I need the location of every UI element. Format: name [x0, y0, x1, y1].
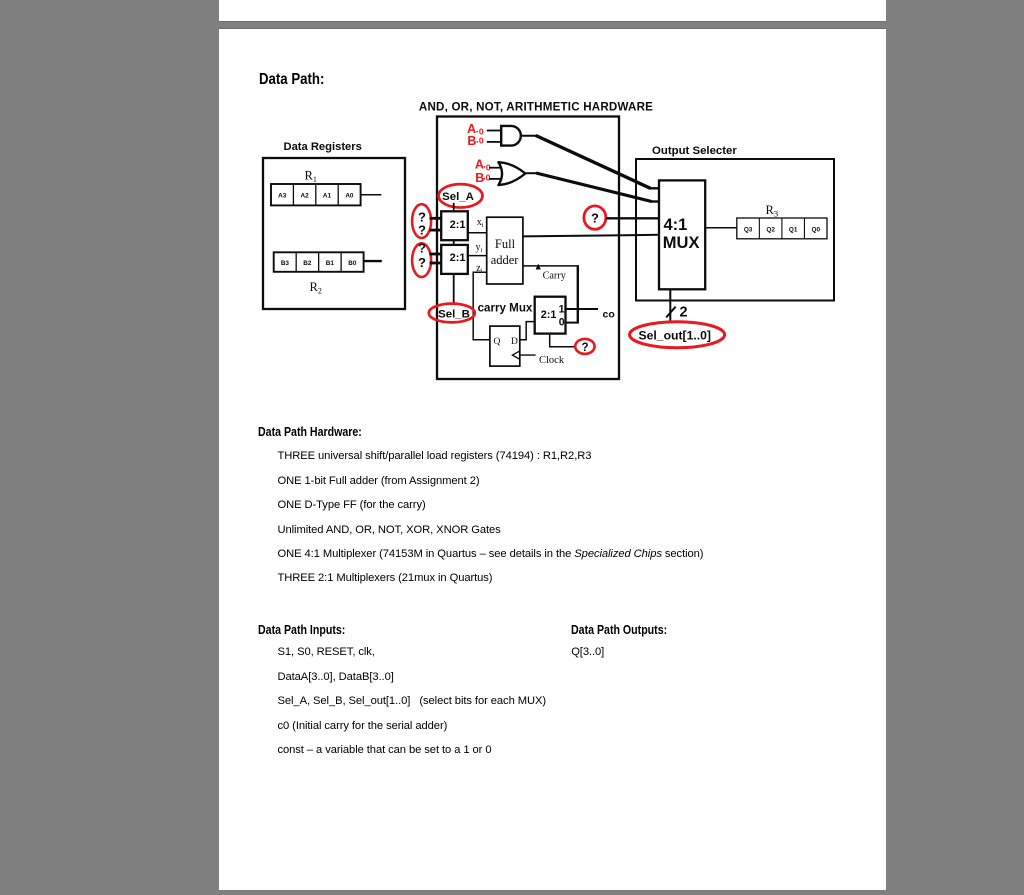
- wire: ? to U2 input 1: [430, 253, 442, 256]
- wire: MUX output to R3: [705, 227, 737, 229]
- svg-text:?: ?: [418, 222, 426, 237]
- wire: OR output diagonal to 4:1 MUX: [536, 173, 652, 202]
- svg-text:Q: Q: [494, 337, 501, 347]
- svg-text:0: 0: [486, 173, 491, 183]
- box: arithmetic hardware enclosure: [437, 117, 619, 380]
- svg-text:1: 1: [559, 303, 565, 315]
- wire: A0 to AND gate: [487, 130, 502, 132]
- svg-text:carry Mux: carry Mux: [478, 301, 533, 314]
- label: bus width 2: [680, 305, 688, 321]
- register R2 (B3..B0 cells): [274, 252, 364, 271]
- wire: carry-mux out to FF D: [520, 322, 535, 340]
- pin label x_i: [477, 217, 484, 229]
- node Sel_B (red ellipse callout): [429, 304, 475, 323]
- svg-text:Output Selecter: Output Selecter: [652, 145, 737, 157]
- svg-text:Q1: Q1: [789, 227, 798, 234]
- svg-text:A1: A1: [323, 193, 332, 200]
- wire: carry FF Q loop to full adder z: [473, 272, 490, 340]
- svg-text:yi: yi: [476, 242, 483, 254]
- svg-text:2:1: 2:1: [450, 219, 466, 231]
- svg-text:0: 0: [559, 317, 565, 329]
- wire: ? to 4:1 MUX input: [606, 217, 660, 219]
- svg-text:Clock: Clock: [539, 355, 565, 366]
- wire: AND output diagonal to 4:1 MUX: [536, 136, 651, 189]
- svg-text:4:1: 4:1: [664, 216, 688, 234]
- svg-text:B: B: [467, 134, 476, 148]
- svg-text:Full: Full: [495, 237, 516, 251]
- or-gate G2: [498, 162, 525, 185]
- label: input B0 (OR): [475, 171, 490, 185]
- svg-text:R3: R3: [766, 203, 779, 219]
- svg-text:Data Registers: Data Registers: [284, 141, 362, 153]
- heading Data Path:: [259, 72, 324, 88]
- wire: R1 output stub: [361, 194, 382, 196]
- svg-text:Sel_B: Sel_B: [438, 309, 470, 321]
- label: Output Selecter title: [652, 145, 737, 157]
- full adder U3: [487, 217, 523, 284]
- wire: MUX select down: [669, 289, 671, 320]
- register R1 (A3..A0 cells): [271, 184, 361, 205]
- bus slash (2 bits): [666, 307, 675, 318]
- wire: select link U1-U2: [453, 240, 455, 245]
- svg-text:B0: B0: [348, 260, 357, 267]
- wire: ? to U2 input 2: [430, 262, 442, 265]
- 4:1 MUX U6: [659, 180, 705, 289]
- previous page bottom strip: [219, 0, 886, 21]
- svg-text:Q0: Q0: [811, 227, 820, 234]
- svg-text:B2: B2: [303, 260, 312, 267]
- label: Data Registers title: [284, 141, 362, 153]
- svg-text:D: D: [511, 337, 518, 347]
- 2:1 mux U1: [441, 211, 468, 240]
- svg-text:?: ?: [591, 211, 599, 226]
- label: AND, OR, NOT, ARITHMETIC HARDWARE title: [419, 101, 653, 114]
- node Sel_out[1..0] (red ellipse callout): [630, 322, 725, 348]
- svg-text:?: ?: [418, 255, 426, 270]
- register R3 (Q3..Q0 cells): [737, 218, 827, 239]
- svg-text:?: ?: [418, 240, 426, 255]
- 2:1 mux U2: [441, 245, 468, 274]
- pin label z_i: [476, 263, 482, 275]
- svg-text:A0: A0: [345, 193, 354, 200]
- svg-text:MUX: MUX: [663, 234, 700, 252]
- svg-text:2:1: 2:1: [541, 309, 557, 321]
- svg-text:Q3: Q3: [744, 227, 753, 234]
- d-flip-flop U5: [490, 326, 520, 366]
- wire: ? to U1 input 1: [430, 217, 442, 220]
- wire: OR gate output stub: [525, 172, 537, 174]
- wire: OR diagonal entry to MUX: [651, 200, 660, 202]
- svg-text:0: 0: [479, 136, 484, 146]
- svg-text:adder: adder: [491, 253, 520, 267]
- wire: B0 to AND gate: [487, 141, 502, 143]
- current document page: [219, 29, 886, 890]
- label: register R2 name: [310, 280, 322, 295]
- wire: AND diagonal entry to MUX: [650, 187, 660, 189]
- wire: AND gate output stub: [521, 135, 537, 137]
- wire: R2 output stub: [364, 260, 382, 262]
- svg-text:Carry: Carry: [543, 270, 567, 281]
- pin label y_i: [476, 242, 483, 254]
- svg-text:2:1: 2:1: [450, 252, 466, 264]
- label: carry Mux: [478, 301, 533, 314]
- node Sel_A (red ellipse callout): [439, 184, 483, 207]
- label: input A0 (OR): [475, 158, 491, 173]
- node ? (carry-mux select, red circle): [575, 339, 594, 354]
- and-gate G1: [501, 126, 521, 146]
- label: Clock: [539, 355, 565, 366]
- wire: carry-mux select to ?: [550, 334, 576, 347]
- node ?-inputs of U1 (red ellipse): [412, 204, 431, 238]
- label: register R3 name: [766, 203, 779, 219]
- node ? (sum line, red circle): [584, 206, 606, 229]
- 2:1 carry mux U4: [535, 297, 566, 334]
- svg-text:?: ?: [581, 342, 588, 354]
- svg-text:B3: B3: [281, 260, 290, 267]
- wire: full adder carry out: [523, 265, 579, 267]
- wire: U2 select down to Sel_B: [453, 274, 455, 305]
- label: co: [603, 308, 615, 320]
- svg-text:B: B: [475, 171, 484, 185]
- svg-text:AND, OR, NOT, ARITHMETIC HARDW: AND, OR, NOT, ARITHMETIC HARDWARE: [419, 101, 653, 114]
- wire: carry-mux pin 0 stub: [566, 322, 580, 324]
- junction arrow on carry wire: [536, 264, 541, 270]
- svg-text:co: co: [603, 308, 615, 320]
- wire: carry down to carry-mux 0 input: [577, 266, 579, 323]
- svg-text:A2: A2: [301, 193, 310, 200]
- wire: B0 to OR gate: [489, 178, 503, 180]
- svg-text:Sel_A: Sel_A: [442, 191, 474, 203]
- wire: carry-mux pin 1 to co: [566, 308, 599, 310]
- wire: full adder sum to 4:1 MUX: [523, 235, 660, 237]
- label: register R1 name: [305, 169, 317, 184]
- svg-text:A3: A3: [278, 193, 287, 200]
- label: input A0 (AND): [467, 122, 484, 137]
- wire: U2 out to full adder y: [468, 255, 487, 257]
- svg-text:Q2: Q2: [766, 227, 775, 234]
- label: input B0 (AND): [467, 134, 484, 148]
- svg-text:2: 2: [680, 305, 688, 321]
- wire: ? to U1 input 2: [430, 229, 442, 232]
- wire: clock input: [520, 354, 536, 356]
- box: Data Registers enclosure: [263, 158, 405, 309]
- label: Carry: [543, 270, 567, 281]
- svg-text:A: A: [475, 158, 484, 172]
- node ?-inputs of U2 (red ellipse): [412, 240, 431, 277]
- wire: A0 to OR gate: [489, 167, 503, 169]
- wire: U1 out to full adder x: [468, 232, 487, 234]
- wire: Sel_A to 2:1 mux select: [453, 203, 455, 212]
- box: Output Selecter enclosure: [636, 159, 834, 301]
- svg-text:xi: xi: [477, 217, 484, 229]
- svg-text:B1: B1: [326, 260, 335, 267]
- svg-text:Sel_out[1..0]: Sel_out[1..0]: [639, 329, 711, 343]
